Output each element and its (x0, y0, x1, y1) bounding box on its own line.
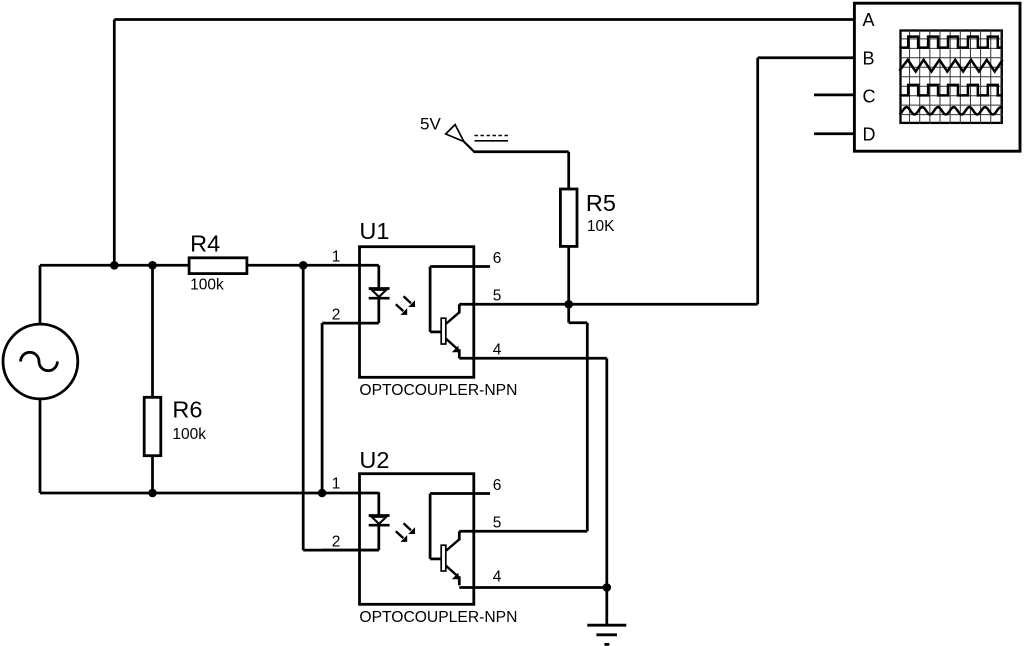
svg-text:6: 6 (493, 250, 502, 267)
svg-text:4: 4 (493, 342, 502, 359)
svg-text:5: 5 (493, 288, 502, 305)
svg-text:C: C (863, 87, 876, 107)
svg-text:2: 2 (332, 306, 341, 323)
svg-text:6: 6 (493, 477, 502, 494)
svg-text:R5: R5 (586, 190, 616, 216)
svg-text:D: D (863, 125, 876, 145)
svg-text:4: 4 (493, 569, 502, 586)
svg-text:2: 2 (332, 533, 341, 550)
svg-text:OPTOCOUPLER-NPN: OPTOCOUPLER-NPN (359, 382, 517, 399)
svg-text:1: 1 (332, 476, 341, 493)
svg-text:100k: 100k (172, 426, 206, 443)
svg-text:10K: 10K (587, 218, 615, 235)
svg-text:R6: R6 (172, 397, 202, 423)
svg-text:B: B (863, 49, 875, 69)
svg-text:R4: R4 (190, 231, 220, 257)
svg-text:1: 1 (332, 249, 341, 266)
svg-text:A: A (863, 10, 875, 30)
svg-text:U2: U2 (359, 447, 389, 473)
svg-text:U1: U1 (359, 218, 389, 244)
svg-text:5: 5 (493, 515, 502, 532)
svg-text:5V: 5V (420, 114, 441, 133)
svg-text:100k: 100k (190, 277, 224, 294)
svg-text:OPTOCOUPLER-NPN: OPTOCOUPLER-NPN (359, 609, 517, 626)
